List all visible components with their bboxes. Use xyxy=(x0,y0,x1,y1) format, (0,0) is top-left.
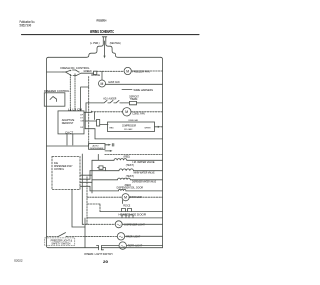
valve 3 wire to rail xyxy=(130,179,162,181)
board right stub to relay xyxy=(85,120,96,122)
svg-text:5995371049: 5995371049 xyxy=(20,23,32,27)
defrost thermostat symbol xyxy=(122,101,163,104)
plug connector xyxy=(94,71,97,74)
valve 3 coil xyxy=(118,178,131,180)
evap fan stem xyxy=(101,71,103,80)
svg-text:DISPENSER SOL. DOOR: DISPENSER SOL. DOOR xyxy=(117,186,143,190)
dispenser light row xyxy=(82,223,115,225)
svg-text:CM: CM xyxy=(80,121,83,123)
refr light row feed xyxy=(101,245,119,247)
dashed run to freezer fan xyxy=(97,70,124,72)
cond fan to right rail xyxy=(131,111,163,113)
svg-text:DR: DR xyxy=(80,127,83,129)
bottom rail xyxy=(49,247,163,249)
freezer light safety switch blade xyxy=(58,233,66,237)
svg-text:DT: DT xyxy=(80,118,83,120)
svg-text:ADJ. AUGER: ADJ. AUGER xyxy=(103,97,116,101)
svg-text:OVERLOAD: OVERLOAD xyxy=(128,119,138,122)
fresh food control contacts xyxy=(63,70,81,76)
dispenser box arrows xyxy=(105,144,109,146)
svg-text:S2022: S2022 xyxy=(14,258,23,262)
valve 2 wire to rail xyxy=(133,170,162,172)
svg-text:(L. PWR.): (L. PWR.) xyxy=(90,41,100,45)
cond fan motor M xyxy=(123,108,131,116)
fresh food control feed wire xyxy=(47,71,64,73)
adj auger switch contacts xyxy=(102,100,122,103)
freezer light lamp xyxy=(117,233,124,240)
neutral return wire below compressor xyxy=(95,138,163,140)
svg-text:EVAP. FAN: EVAP. FAN xyxy=(109,80,120,84)
ice box right stubs xyxy=(80,175,92,186)
compressor output arrow to rail xyxy=(155,126,159,128)
dispenser light to rail xyxy=(122,223,162,225)
freezer control switch xyxy=(50,97,57,102)
auger wire to rail xyxy=(129,196,162,198)
adaptive defrost board box xyxy=(58,111,84,134)
svg-text:M: M xyxy=(126,69,129,73)
freezer light switch dashed outline xyxy=(45,238,75,246)
legend wire harness xyxy=(122,89,132,91)
wire switch to plug xyxy=(81,72,94,74)
auger stem down xyxy=(122,200,124,203)
svg-text:FRZ ICE: FRZ ICE xyxy=(123,205,130,208)
refr light to rail xyxy=(126,245,162,247)
svg-text:L1 L3 CM: L1 L3 CM xyxy=(68,108,82,111)
dispenser solenoid row feed xyxy=(90,190,118,192)
water valve row 3 feed xyxy=(92,179,118,181)
water valve row 1 feed xyxy=(92,154,114,160)
svg-text:M: M xyxy=(101,82,104,86)
compressor labels xyxy=(110,125,152,131)
board right stub to cond fan xyxy=(84,111,92,112)
heater element bumps xyxy=(122,215,133,218)
evap fan wire to right rail xyxy=(106,83,163,85)
svg-text:(NEUTRAL): (NEUTRAL) xyxy=(110,41,121,45)
wire from L1 pin to left rail xyxy=(49,41,104,57)
svg-text:DISPENSER: DISPENSER xyxy=(90,148,104,150)
dispenser light lamp xyxy=(115,221,122,228)
svg-text:WHITE: WHITE xyxy=(145,127,152,129)
solenoid coil xyxy=(118,189,126,191)
interlock connector on bottom rail xyxy=(97,246,104,250)
svg-text:GREEN: GREEN xyxy=(84,71,92,73)
wire from neutral pin to right rail xyxy=(106,41,161,57)
auto dispenser box xyxy=(89,144,106,150)
svg-text:FRS20ZRG4: FRS20ZRG4 xyxy=(97,19,107,23)
adj auger switch feed xyxy=(86,103,89,112)
freezer light switch dashed run xyxy=(47,236,59,238)
svg-text:(TEST): (TEST) xyxy=(126,165,134,167)
valve 1 wire to rail xyxy=(127,159,163,161)
svg-text:115 VAC: 115 VAC xyxy=(124,128,133,131)
board name text xyxy=(62,118,75,125)
refr light lamp xyxy=(119,242,126,249)
label DEFROST THERM. xyxy=(129,95,139,101)
row2 connector xyxy=(98,166,106,171)
svg-text:INTERR. LIGHT SWITCH: INTERR. LIGHT SWITCH xyxy=(84,253,113,256)
freezer light to rail xyxy=(125,235,163,237)
left rail xyxy=(47,57,49,247)
heater row wire xyxy=(87,217,163,219)
ice maker coil symbols xyxy=(122,209,132,212)
dashed dispenser feed to rail xyxy=(105,153,163,155)
defrost bus wire xyxy=(47,145,89,147)
header publication text xyxy=(20,20,36,27)
svg-text:DF: DF xyxy=(80,115,83,117)
ice dispenser assy control dashed box xyxy=(52,157,80,190)
svg-text:DEFROST: DEFROST xyxy=(62,121,74,125)
freezer control box xyxy=(44,93,65,106)
svg-text:FRESH FD. CONTROL: FRESH FD. CONTROL xyxy=(61,66,90,70)
svg-text:SAFETY SWITCH: SAFETY SWITCH xyxy=(51,242,70,245)
verticals from dispenser area xyxy=(81,154,83,224)
valve 2 coil xyxy=(119,169,133,171)
valve 1 coil xyxy=(114,159,127,161)
right rail xyxy=(161,57,163,247)
cond fan run xyxy=(92,111,123,113)
power connector pins xyxy=(102,37,107,41)
svg-text:AUTO: AUTO xyxy=(93,144,99,147)
relay box xyxy=(97,120,100,127)
svg-text:20: 20 xyxy=(103,259,109,264)
board right pin labels xyxy=(80,115,83,129)
relay to compressor wire xyxy=(100,124,108,126)
label FREEZER LIGHT SAFETY SWITCH xyxy=(51,240,73,246)
svg-text:CONTROL: CONTROL xyxy=(54,168,65,171)
board bottom stubs xyxy=(66,134,68,145)
solenoid wire to rail xyxy=(126,190,163,192)
ice box bottom stub down xyxy=(72,190,85,228)
dashed vertical feed to dispenser xyxy=(88,77,90,146)
svg-text:COMPRESSOR: COMPRESSOR xyxy=(122,125,136,128)
svg-text:M: M xyxy=(125,110,128,114)
ice maker row wire xyxy=(100,211,163,213)
svg-text:THERM.: THERM. xyxy=(130,98,138,101)
svg-text:(TEST): (TEST) xyxy=(126,176,134,178)
water valve row 2 feed xyxy=(90,170,119,172)
compressor box xyxy=(108,122,155,132)
motor auger row xyxy=(87,196,122,198)
header rule xyxy=(22,34,200,36)
svg-text:WIRING SCHEMATIC: WIRING SCHEMATIC xyxy=(90,29,114,34)
board right stub DR down to neutral return xyxy=(85,129,95,139)
svg-text:M: M xyxy=(124,196,127,200)
svg-text:WIRE HARNESS: WIRE HARNESS xyxy=(134,88,154,92)
center tap arrow down xyxy=(104,41,106,56)
freezer fan motor M xyxy=(124,67,131,74)
dashed run freezer fan to right rail xyxy=(131,70,162,72)
ice maker feed stub xyxy=(87,204,100,212)
svg-text:RED: RED xyxy=(110,127,115,129)
board right feeder bus xyxy=(84,112,86,128)
wires from fresh food control down to defrost board xyxy=(74,74,76,111)
auger motor M xyxy=(122,194,129,201)
evap fan motor M xyxy=(99,80,106,87)
